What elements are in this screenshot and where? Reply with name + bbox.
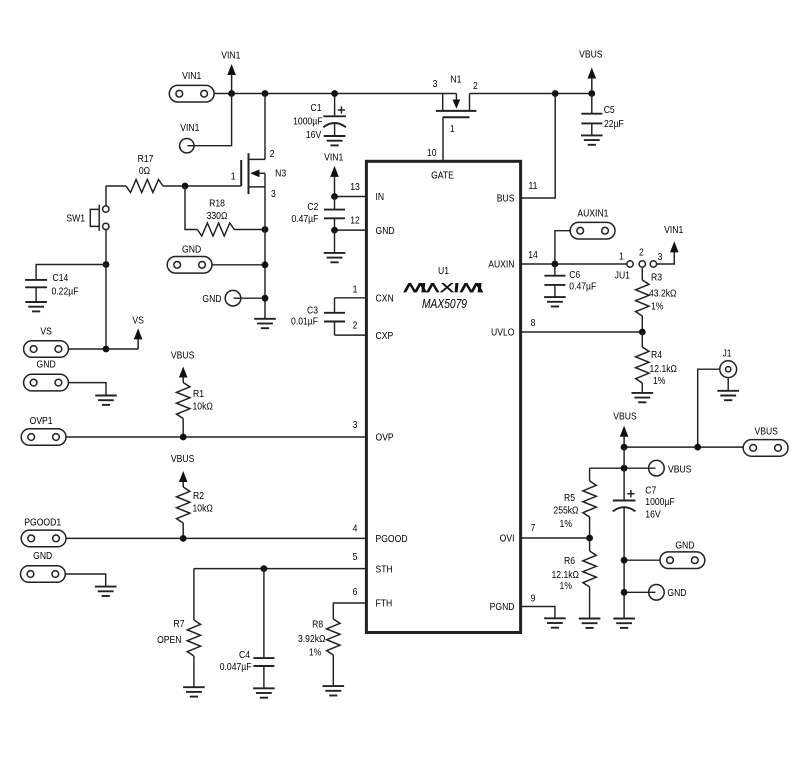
- ground below C7: [613, 619, 635, 628]
- wire N3 gate: [185, 185, 241, 187]
- svg-text:255kΩ: 255kΩ: [553, 505, 578, 517]
- svg-text:GND: GND: [675, 540, 694, 552]
- svg-text:7: 7: [531, 522, 536, 534]
- junction PGOOD / R2: [180, 535, 187, 542]
- connector pad PGOOD1: [21, 517, 66, 547]
- svg-text:1%: 1%: [309, 647, 322, 659]
- svg-text:0.47µF: 0.47µF: [569, 281, 596, 293]
- ground below C14: [25, 302, 47, 311]
- wire PGND to ground: [521, 607, 555, 619]
- pin 1 CXN: [353, 284, 394, 305]
- svg-text:1%: 1%: [653, 375, 666, 387]
- svg-text:11: 11: [529, 180, 538, 192]
- svg-text:R17: R17: [138, 153, 154, 165]
- connector pad GND (below VS): [24, 359, 69, 391]
- svg-text:13: 13: [350, 181, 360, 193]
- svg-text:GATE: GATE: [431, 170, 454, 182]
- svg-text:4: 4: [353, 523, 358, 535]
- ground below R4: [632, 393, 654, 402]
- wire C2 to ground: [334, 230, 336, 253]
- wire VBUS rail to C7: [623, 447, 625, 500]
- svg-text:AUXIN: AUXIN: [488, 259, 514, 271]
- junction OVI / R5 / R6: [586, 535, 593, 542]
- svg-text:GND: GND: [33, 550, 52, 562]
- wire GND pad to ground (below PGOOD1): [65, 574, 105, 587]
- svg-text:VIN1: VIN1: [664, 224, 683, 236]
- svg-text:CXN: CXN: [376, 293, 394, 305]
- svg-text:IN: IN: [376, 191, 385, 203]
- resistor R3 43.2k: [636, 267, 677, 332]
- svg-text:12: 12: [350, 215, 360, 227]
- wire JU1 pin 3 to VIN1 flag: [657, 251, 675, 264]
- wire J1 to ground: [727, 378, 729, 391]
- ground below C4: [253, 688, 275, 697]
- ground below R8: [323, 686, 345, 695]
- transistor N1 (pass MOSFET): [433, 74, 478, 135]
- wire GND test point to N3 source run: [234, 297, 266, 299]
- svg-text:SW1: SW1: [66, 213, 85, 225]
- wire top VIN1 rail (left of N1): [214, 93, 457, 95]
- svg-text:3: 3: [433, 78, 438, 90]
- svg-text:2: 2: [270, 148, 275, 160]
- svg-text:C2: C2: [307, 201, 318, 213]
- wire OVI: [521, 537, 590, 539]
- wire VS: [69, 348, 139, 350]
- svg-text:U1: U1: [438, 265, 449, 277]
- junction AUXIN / C6: [552, 261, 559, 268]
- svg-text:0Ω: 0Ω: [139, 165, 150, 177]
- junction C7 at VBUS test point row: [621, 465, 628, 472]
- label U1: [438, 265, 449, 277]
- svg-text:STH: STH: [376, 564, 393, 576]
- resistor R7 OPEN: [157, 569, 200, 688]
- wire N3 drain riser: [264, 94, 266, 160]
- wire pin 1 CXN: [335, 297, 367, 299]
- svg-text:AUXIN1: AUXIN1: [577, 208, 608, 220]
- junction SW1 / C14 node: [103, 261, 110, 268]
- wire top rail (N1 to VBUS): [470, 93, 592, 95]
- wire pin 2 CXP: [335, 334, 367, 336]
- svg-text:VIN1: VIN1: [324, 152, 343, 164]
- svg-text:1000µF: 1000µF: [293, 116, 322, 128]
- svg-text:1: 1: [353, 284, 358, 296]
- power flag VIN1 (top rail): [221, 50, 240, 94]
- svg-text:VS: VS: [40, 326, 51, 338]
- svg-text:MAX5079: MAX5079: [422, 298, 468, 311]
- wire N3 source run: [264, 187, 266, 319]
- svg-text:FTH: FTH: [376, 598, 393, 610]
- resistor R4 12.1k: [636, 332, 677, 393]
- svg-text:R6: R6: [564, 555, 575, 567]
- wire PGOOD: [66, 537, 366, 539]
- svg-text:VBUS: VBUS: [668, 464, 691, 476]
- svg-text:R4: R4: [651, 349, 663, 361]
- svg-text:BUS: BUS: [497, 193, 515, 205]
- svg-text:1000µF: 1000µF: [645, 496, 674, 508]
- svg-text:VBUS: VBUS: [171, 453, 194, 465]
- junction UVLO / R3 / R4: [639, 329, 646, 336]
- test point GND (circle pad): [202, 290, 240, 306]
- svg-text:GND: GND: [37, 359, 56, 371]
- capacitor C4 0.047uF: [220, 569, 275, 689]
- ground below VS GND pad: [95, 396, 117, 405]
- wire STH: [194, 568, 367, 570]
- capacitor C7 1000uF 16V (electrolytic): [613, 485, 675, 619]
- capacitor C5 22uF: [581, 94, 624, 136]
- power flag VBUS (right): [613, 411, 636, 447]
- svg-text:330Ω: 330Ω: [207, 210, 228, 222]
- ground below PGOOD1 GND pad: [95, 587, 117, 596]
- svg-text:VBUS: VBUS: [613, 411, 636, 423]
- ground below J1: [717, 391, 739, 400]
- svg-text:6: 6: [353, 586, 358, 598]
- svg-text:22µF: 22µF: [604, 118, 624, 130]
- resistor R2 10k: [177, 487, 213, 538]
- svg-text:GND: GND: [376, 225, 395, 237]
- capacitor C2 0.47uF: [291, 197, 345, 231]
- wire pin 13 IN: [335, 196, 367, 198]
- svg-text:16V: 16V: [645, 509, 661, 521]
- svg-text:VIN1: VIN1: [221, 50, 240, 62]
- wire SW1 to C14/VS node: [105, 230, 107, 265]
- svg-text:2: 2: [353, 320, 358, 332]
- svg-text:OVP1: OVP1: [30, 415, 53, 427]
- pin 14 AUXIN: [488, 249, 538, 271]
- svg-text:5: 5: [353, 551, 358, 563]
- junction VBUS rail at J1 riser: [694, 444, 701, 451]
- svg-text:UVLO: UVLO: [491, 327, 514, 339]
- resistor R18 330ohm: [185, 186, 265, 236]
- junction STH / C4: [261, 565, 268, 572]
- junction top rail at C5: [588, 90, 595, 97]
- connector pad AUXIN1: [570, 208, 615, 239]
- connector J1: [720, 348, 737, 378]
- svg-text:C6: C6: [569, 269, 580, 281]
- junction top rail at BUS riser: [552, 90, 559, 97]
- wire R17 to SW1: [105, 186, 107, 206]
- pin 12 GND: [350, 215, 394, 237]
- power flag VIN1 (JU1): [664, 224, 683, 252]
- jumper JU1 pin 3: [650, 251, 662, 267]
- svg-text:VIN1: VIN1: [180, 122, 199, 134]
- svg-text:1: 1: [450, 123, 455, 135]
- wire C14 node to VS node: [105, 265, 107, 350]
- svg-text:12.1kΩ: 12.1kΩ: [552, 569, 579, 581]
- capacitor C14 0.22uF: [25, 265, 106, 303]
- svg-text:R7: R7: [174, 618, 185, 630]
- svg-text:0.22µF: 0.22µF: [52, 286, 79, 298]
- pin 7 OVI: [500, 522, 536, 545]
- connector pad GND (right): [660, 540, 705, 569]
- capacitor C1 1000uF 16V (electrolytic): [293, 94, 346, 142]
- power flag VIN1 (pin 13): [324, 152, 343, 197]
- pin 6 FTH: [353, 586, 393, 610]
- junction OVP / R1: [180, 434, 187, 441]
- test point GND (circle pad, right): [649, 585, 687, 601]
- junction pin 13 / C2: [331, 193, 338, 200]
- jumper JU1 pin 1: [619, 251, 633, 268]
- junction N3 gate / R17 / R18: [182, 183, 189, 190]
- test point VBUS (circle pad): [649, 460, 692, 476]
- wire VBUS test point row: [590, 467, 656, 469]
- junction pin 12 / C2: [331, 227, 338, 234]
- svg-text:GND: GND: [202, 293, 221, 305]
- junction VBUS rail at flag: [621, 444, 628, 451]
- svg-text:R3: R3: [651, 272, 662, 284]
- svg-text:14: 14: [528, 249, 538, 261]
- wire VIN1 test point to top rail: [188, 94, 232, 146]
- connector pad GND (below PGOOD1): [21, 550, 66, 582]
- junction C7 run at GND test point: [621, 589, 628, 596]
- svg-text:0.01µF: 0.01µF: [291, 316, 318, 328]
- svg-text:2: 2: [639, 247, 644, 259]
- svg-text:1: 1: [231, 171, 236, 183]
- svg-text:OPEN: OPEN: [157, 634, 181, 646]
- connector pad OVP1: [21, 415, 66, 445]
- resistor R5 255k: [553, 468, 596, 538]
- wire GND pad to ground: [69, 383, 107, 396]
- power flag VBUS (R1): [171, 350, 194, 383]
- svg-text:VS: VS: [132, 315, 143, 327]
- logo MAXIM: [403, 283, 483, 292]
- ground below R7: [183, 687, 205, 696]
- wire UVLO: [521, 331, 643, 333]
- connector pad GND (near N3): [167, 244, 212, 274]
- svg-text:43.2kΩ: 43.2kΩ: [649, 288, 676, 300]
- wire BUS pin 11 riser: [521, 94, 556, 199]
- svg-text:R5: R5: [564, 492, 575, 504]
- label MAX5079: [422, 298, 468, 311]
- svg-text:0.047µF: 0.047µF: [220, 661, 252, 673]
- label GATE (pin 10 name): [431, 170, 454, 182]
- ground below PGND: [544, 618, 566, 627]
- wire GND pad to N3 source run: [212, 264, 265, 266]
- svg-text:1%: 1%: [651, 301, 664, 313]
- ground below C6: [544, 297, 566, 306]
- svg-text:OVI: OVI: [500, 533, 515, 545]
- wire J1 to VBUS rail: [698, 369, 720, 447]
- pin 9 PGND: [490, 593, 536, 614]
- svg-text:VBUS: VBUS: [754, 426, 777, 438]
- ground below C2: [324, 253, 346, 262]
- svg-text:GND: GND: [182, 244, 201, 256]
- transistor N3: [231, 148, 286, 200]
- capacitor C6 0.47uF: [544, 264, 596, 297]
- svg-text:PGOOD1: PGOOD1: [24, 517, 61, 529]
- ground below C5: [581, 135, 603, 144]
- ground below C1: [324, 136, 346, 145]
- svg-text:C1: C1: [311, 102, 322, 114]
- svg-text:PGOOD: PGOOD: [376, 533, 408, 545]
- svg-text:12.1kΩ: 12.1kΩ: [650, 363, 677, 375]
- connector pad VIN1: [169, 70, 214, 102]
- svg-text:10kΩ: 10kΩ: [193, 401, 213, 413]
- svg-text:3: 3: [658, 251, 663, 263]
- svg-text:VBUS: VBUS: [579, 49, 602, 61]
- svg-text:PGND: PGND: [490, 601, 515, 613]
- svg-text:10kΩ: 10kΩ: [193, 503, 213, 515]
- svg-text:VIN1: VIN1: [182, 70, 201, 82]
- svg-text:R18: R18: [209, 198, 225, 210]
- wire pin 12 GND: [335, 229, 367, 231]
- pin 8 UVLO: [491, 317, 535, 339]
- connector pad VBUS (right): [743, 426, 788, 456]
- jumper JU1 pin 2: [639, 247, 645, 267]
- svg-text:J1: J1: [722, 348, 731, 360]
- svg-text:CXP: CXP: [376, 330, 394, 342]
- junction top rail at N3 drain riser: [262, 90, 269, 97]
- svg-text:3: 3: [353, 419, 358, 431]
- svg-text:R1: R1: [193, 388, 204, 400]
- svg-text:R8: R8: [312, 619, 323, 631]
- resistor R17 0ohm: [106, 153, 185, 192]
- svg-text:1: 1: [619, 251, 624, 263]
- svg-text:VBUS: VBUS: [171, 350, 194, 362]
- wire AUXIN1 pad branch: [555, 231, 570, 264]
- svg-text:R2: R2: [193, 490, 204, 502]
- svg-text:1%: 1%: [560, 580, 573, 592]
- junction C7 run at GND pad: [621, 557, 628, 564]
- svg-text:1%: 1%: [560, 518, 573, 530]
- power flag VBUS (top): [579, 49, 602, 94]
- junction N3 source / R18: [262, 226, 269, 233]
- pin 2 CXP: [353, 320, 394, 342]
- svg-text:JU1: JU1: [615, 270, 630, 282]
- pin number 10: [427, 147, 437, 159]
- svg-text:16V: 16V: [306, 129, 322, 141]
- op-amp U1 MAX5079 (IC body): [366, 161, 520, 632]
- svg-text:10: 10: [427, 147, 437, 159]
- svg-text:N3: N3: [275, 168, 286, 180]
- wire AUXIN: [521, 263, 627, 265]
- label JU1: [615, 270, 630, 282]
- pin 3 OVP: [353, 419, 394, 444]
- svg-text:OVP: OVP: [376, 432, 394, 444]
- wire GND test point to C7 run: [624, 591, 655, 593]
- wire GND pad to C7 run: [624, 559, 660, 561]
- svg-text:C7: C7: [645, 485, 656, 497]
- svg-text:3.92kΩ: 3.92kΩ: [298, 633, 325, 645]
- wire VBUS rail right: [624, 446, 743, 448]
- junction top rail at VIN1 flag: [228, 90, 235, 97]
- svg-text:C14: C14: [53, 272, 69, 284]
- wire N1 gate to pin 10: [442, 117, 444, 161]
- svg-text:C5: C5: [604, 104, 615, 116]
- junction top rail at C1: [331, 90, 338, 97]
- svg-text:2: 2: [473, 80, 478, 92]
- capacitor C3 0.01uF: [291, 298, 345, 335]
- switch SW1 (pushbutton): [66, 205, 109, 231]
- pin 4 PGOOD: [353, 523, 408, 546]
- resistor R1 10k: [177, 383, 213, 438]
- svg-text:3: 3: [271, 188, 276, 200]
- svg-text:0.47µF: 0.47µF: [291, 213, 318, 225]
- svg-text:8: 8: [531, 317, 536, 329]
- connector pad VS: [24, 326, 69, 358]
- svg-text:GND: GND: [667, 587, 686, 599]
- svg-text:C4: C4: [239, 649, 251, 661]
- pin 11 BUS: [497, 180, 538, 205]
- junction N3 source at GND pad: [262, 261, 269, 268]
- power flag VBUS (R2): [171, 453, 194, 487]
- pin 13 IN: [350, 181, 384, 203]
- test point VIN1 (circle pad): [180, 122, 200, 152]
- svg-text:9: 9: [531, 593, 536, 605]
- resistor R6 12.1k: [552, 538, 597, 619]
- junction N3 source at GND test point: [262, 295, 269, 302]
- ground below N3: [254, 319, 276, 328]
- resistor R8 3.92k: [298, 603, 366, 686]
- power flag VS: [132, 315, 143, 349]
- junction VS node: [103, 346, 110, 353]
- svg-text:N1: N1: [450, 74, 461, 86]
- wire OVP: [66, 436, 366, 438]
- pin 5 STH: [353, 551, 393, 575]
- ground below R6: [579, 619, 601, 628]
